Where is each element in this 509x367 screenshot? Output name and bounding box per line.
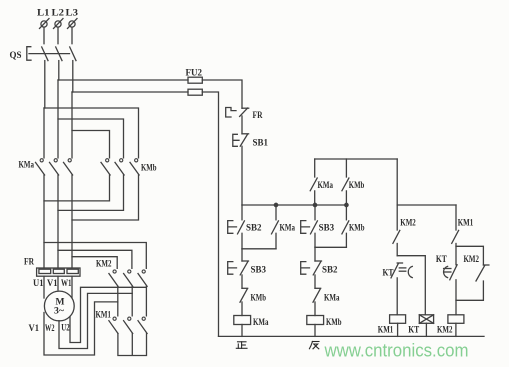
wire KMa pole3 down [71, 175, 73, 268]
svg-text:KM2: KM2 [96, 260, 112, 270]
coil KMb [307, 316, 342, 329]
svg-text:KMb: KMb [326, 318, 342, 328]
wire KMb feed phase2 [58, 119, 124, 158]
svg-text:KM2: KM2 [464, 255, 480, 265]
svg-text:KM1: KM1 [458, 219, 474, 229]
fuse FU2 lower [188, 89, 202, 95]
wire KMb feed phase3 [72, 131, 110, 158]
node L1 terminal [37, 9, 50, 29]
wire bus to SB2 [241, 205, 243, 220]
pushbutton SB3 NC interlock [228, 261, 267, 276]
contact KMa aux NO parallel SB2 [272, 221, 296, 234]
wire KM2 feed phase3 [72, 257, 117, 269]
wire motor V1 to KM1 pole1 feed [44, 302, 118, 355]
wire KM2 coil to bottom rail [455, 323, 457, 336]
wire KMb NC to KMa coil [241, 302, 243, 316]
thermal relay FR heaters [24, 258, 80, 277]
svg-text:KMa: KMa [318, 181, 334, 191]
svg-text:KM2: KM2 [437, 326, 453, 336]
svg-text:KMa: KMa [253, 318, 269, 328]
wire KMb pole3 merge [72, 175, 139, 220]
wire merge to SB2 NC [314, 247, 316, 261]
coil KM1 [378, 315, 406, 336]
pushbutton SB1 stop NC [233, 134, 268, 149]
wire KM2 pole2 to KM1 pole2 [131, 286, 133, 293]
svg-text:KT: KT [383, 269, 395, 279]
svg-text:KM2: KM2 [400, 219, 416, 229]
svg-text:L1: L1 [37, 9, 50, 19]
contactor KM1 main contacts [96, 311, 148, 334]
wire KMb pole1 merge [44, 175, 110, 201]
svg-text:SB2: SB2 [322, 266, 338, 276]
wire rail drop to speed section [396, 159, 398, 205]
wire KT NC to KM1 coil [396, 278, 398, 315]
svg-text:KT: KT [436, 255, 448, 265]
wire merge forward pair [242, 248, 276, 250]
wire fuse upper to control branch [202, 80, 242, 108]
svg-text:KMb: KMb [251, 294, 267, 304]
svg-text:KMb: KMb [349, 224, 365, 234]
wire FR to SB1 [241, 116, 243, 134]
wire KM1 star bar [118, 334, 147, 356]
wire fuse feed upper from phase2 [58, 79, 188, 81]
wire to KM2 aux [396, 205, 398, 230]
contact KMa aux NO self-hold [310, 178, 333, 191]
svg-text:W2: W2 [45, 324, 55, 334]
contactor KMb main contacts [101, 159, 157, 175]
timer contact KT NC delayed [383, 263, 413, 279]
wire bus to SB3 NO [314, 205, 316, 220]
contact KM2 NC parallel [464, 255, 489, 281]
wire SB1 to bus [241, 146, 243, 205]
wire KMb feed phase1 [44, 108, 139, 158]
wire speed rail [397, 204, 456, 206]
wire KMa pole1 down [43, 175, 45, 268]
wire FR to motor W1 [71, 276, 73, 297]
svg-text:KM1: KM1 [96, 311, 112, 321]
wire KMb coil to bottom rail [314, 325, 316, 337]
svg-text:KMb: KMb [141, 164, 157, 174]
wire KMa pole2 down [57, 175, 59, 268]
wire merge reverse pair [315, 246, 346, 248]
wire merge to SB3 NC [241, 249, 243, 261]
wire KM2 feed phase2 [58, 250, 132, 268]
svg-text:KT: KT [408, 326, 420, 336]
label zheng forward [236, 342, 247, 349]
wire KM2 NC down and back [456, 281, 483, 300]
pushbutton SB3 start NO [301, 221, 335, 234]
wire KMb aux lower to merge [345, 233, 347, 247]
wire split to KT coil branch [397, 256, 425, 315]
svg-text:FR: FR [24, 258, 34, 268]
wire control bus [242, 204, 346, 206]
wire phase3 QS to KMa pole3 [72, 61, 74, 92]
node L2 terminal [52, 9, 65, 29]
svg-text:L3: L3 [66, 9, 79, 19]
svg-text:SB1: SB1 [253, 139, 269, 149]
svg-text:U1: U1 [33, 278, 44, 288]
motor M 3-phase [44, 291, 74, 321]
svg-text:W1: W1 [61, 278, 72, 288]
wire L1 terminal to QS [43, 28, 45, 44]
junction dot KMa branch [274, 203, 277, 206]
wire SB3 NC to KMb NC [241, 275, 243, 288]
svg-text:U2: U2 [61, 324, 70, 334]
svg-text:QS: QS [10, 51, 22, 61]
wire KMa coil to bottom rail [241, 325, 243, 337]
label fan reverse [309, 342, 319, 349]
wire FR to motor U1 [43, 276, 45, 298]
wire motor U2 to KM1 pole3 feed [70, 287, 146, 342]
coil KM2 [437, 315, 464, 336]
svg-text:KMa: KMa [19, 161, 35, 171]
svg-text:KMb: KMb [349, 181, 365, 191]
wire KMa NC to KMb coil [314, 302, 316, 316]
contact KMb aux NO self-hold [342, 178, 364, 191]
contact KM2 aux NO [393, 219, 416, 244]
svg-text:SB3: SB3 [251, 266, 267, 276]
svg-text:FR: FR [253, 111, 263, 121]
wire motor W2 to KM1 pole2 feed [59, 293, 132, 348]
wire KM2 aux to split [396, 244, 398, 256]
wire KMb pole2 merge [58, 175, 124, 210]
junction dot SB3 branch [313, 203, 316, 206]
wire phase1 QS to KMa pole1 [44, 61, 46, 108]
node L3 terminal [66, 9, 79, 29]
wire bus to KMa aux lower [275, 205, 277, 220]
svg-text:SB2: SB2 [246, 224, 262, 234]
wire rail to KMb aux upper [345, 159, 347, 177]
junction dot KMb branch [345, 203, 348, 206]
thermal relay FR NC contact [226, 108, 263, 122]
svg-text:SB3: SB3 [319, 224, 335, 234]
svg-text:L2: L2 [52, 9, 65, 19]
wire FR to motor V1 [57, 276, 59, 290]
wire fuse feed lower from phase3 [72, 91, 188, 93]
coil KT with X [408, 315, 433, 336]
wire KMa aux lower to merge [275, 233, 277, 249]
contact KMa NC interlock [313, 288, 340, 303]
wire to KM1 aux [455, 205, 457, 230]
wire SB2 to merge [241, 233, 243, 249]
wire KM1 aux to split [455, 244, 457, 265]
pushbutton SB2 start NO [228, 221, 262, 234]
wire KM2 NC parallel branch [456, 246, 483, 265]
wire rail to KMa aux upper [314, 159, 316, 177]
pushbutton SB2 NC interlock [301, 261, 338, 276]
wire KMa aux to bus [314, 191, 316, 205]
contact KM1 aux NO [452, 219, 474, 244]
timer contact KT NO delayed [436, 255, 457, 280]
contactor KMa main contacts [19, 159, 73, 175]
switch QS 3-pole [10, 47, 77, 61]
wire L3 terminal to QS [71, 28, 73, 44]
wire bottom rail [219, 335, 485, 337]
svg-text:www.cntronics.com: www.cntronics.com [324, 341, 469, 361]
wire KM2 feed phase1 [44, 243, 146, 269]
wire SB3 NO to merge [314, 233, 316, 247]
svg-text:V1: V1 [29, 324, 40, 334]
wire KT coil to bottom rail [425, 323, 427, 336]
svg-text:KM1: KM1 [378, 326, 394, 336]
wire KMb aux to bus [345, 191, 347, 205]
wire bus to KMb aux lower [345, 205, 347, 220]
wire KT NO to KM2 coil [455, 280, 457, 315]
coil KMa [234, 316, 269, 329]
wire fuse lower to left control rail [202, 92, 218, 336]
wire SB2 NC to KMa NC [314, 275, 316, 288]
contact KMb aux NO parallel SB3 [342, 221, 365, 234]
wire KM2 pole3 to KM1 pole3 [145, 286, 147, 287]
fuse FU2 upper [186, 69, 203, 84]
wire self-hold rail [315, 158, 398, 160]
contactor KM2 main contacts [96, 260, 147, 287]
wire phase2 QS to KMa pole2 [58, 61, 60, 80]
svg-text:V1: V1 [47, 278, 58, 288]
svg-text:3~: 3~ [54, 307, 64, 317]
wire L2 terminal to QS [57, 28, 59, 44]
svg-text:KMa: KMa [324, 294, 340, 304]
wire KM1 coil to bottom rail [397, 323, 399, 336]
svg-text:KMa: KMa [280, 224, 296, 234]
wire KM2 pole1 to KM1 pole1 [117, 286, 119, 302]
contact KMb NC interlock [240, 288, 266, 303]
